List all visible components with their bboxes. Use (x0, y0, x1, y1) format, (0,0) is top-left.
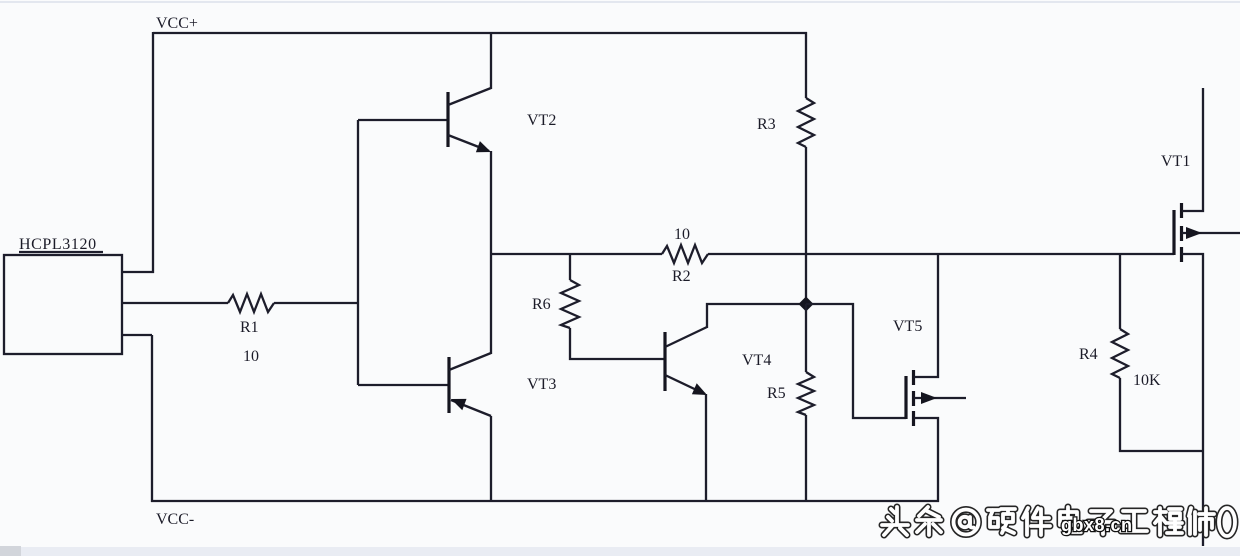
mosfet VT1 channel segment (body) (1180, 226, 1183, 241)
transistor VT2 emitter diagonal (448, 135, 489, 151)
wire: VT3 emitter down to VCC- rail (490, 416, 492, 502)
wire: HCPL3120 top-right pin stub (122, 271, 154, 273)
svg-text:VT2: VT2 (527, 112, 556, 129)
svg-text:10: 10 (674, 226, 690, 243)
svg-text:VCC-: VCC- (156, 511, 194, 528)
svg-text:gbx8.cn: gbx8.cn (1061, 515, 1133, 535)
wire: R2 to VT1 gate line (708, 253, 1174, 255)
wire: R3 bottom through gate line to node (805, 147, 807, 304)
svg-text:VT5: VT5 (893, 318, 922, 335)
mosfet VT1 channel segment (drain side) (1180, 203, 1183, 218)
mosfet VT5 gate bar (904, 376, 907, 419)
wire: VT4 collector up and right to node (707, 304, 806, 328)
resistor R2 (662, 245, 708, 263)
svg-text:HCPL3120: HCPL3120 (19, 236, 97, 253)
wire: VCC- bottom rail (151, 500, 939, 502)
wire: R3 branch from VCC+ rail (805, 32, 807, 98)
resistor R4 (1112, 329, 1128, 378)
svg-text:R5: R5 (767, 385, 786, 402)
svg-text:VT3: VT3 (527, 376, 556, 393)
mosfet VT5 body arrow (921, 392, 937, 404)
resistor R6 (561, 280, 579, 328)
wire: VT2 collector to VCC+ rail (490, 32, 492, 89)
svg-text:R1: R1 (240, 319, 259, 336)
transistor Q VT4 base bar (663, 332, 666, 391)
wire: VT2 base wire (358, 119, 448, 121)
svg-text:VT4: VT4 (742, 352, 771, 369)
wire: VT4 emitter down to VCC- rail (705, 394, 707, 502)
wire: VT3 base wire (358, 384, 449, 386)
mosfet VT5 body lead with arrow (914, 397, 966, 399)
transistor Q VT2 base bar (446, 92, 449, 147)
label underline for HCPL3120 (19, 251, 103, 253)
wire: base bus vertical joining VT2 and VT3 bases (357, 120, 359, 385)
svg-text:10K: 10K (1133, 372, 1161, 389)
watermark 头条 @硬件电子工程师0 (hand-drawn outlined glyphs) (882, 507, 1235, 536)
wire: VT1 source lead down to bottom edge (1182, 254, 1203, 546)
mosfet VT5 channel segment (body) (912, 391, 915, 406)
wire: HCPL3120 bottom-right pin stub (122, 334, 152, 336)
transistor VT3 emitter diagonal (451, 400, 491, 416)
resistor R3 (798, 98, 814, 147)
resistor R5 (798, 372, 814, 415)
mosfet VT1 body lead with arrow (1182, 232, 1240, 234)
wire: node to VT5 gate (right, down, right) (806, 304, 906, 418)
transistor VT3 collector diagonal (to output node) (449, 353, 491, 370)
wire: R5 bottom to VCC- rail (805, 415, 807, 502)
wire: VT5 drain lead (914, 253, 938, 377)
svg-text:R2: R2 (672, 268, 691, 285)
transistor VT4 collector diagonal (665, 327, 707, 347)
wire: VCC+ top rail (153, 32, 807, 34)
resistor R1 (228, 294, 274, 312)
svg-text:VT1: VT1 (1161, 153, 1190, 170)
wire: left vertical down to VCC- rail (151, 335, 153, 502)
mosfet VT1 channel segment (source side) (1180, 247, 1183, 262)
wire: R1 to base node vertical (274, 302, 358, 304)
wire: HCPL3120 output pin to R1 (122, 302, 228, 304)
wire: R4 bottom to VT1 source line (1120, 378, 1203, 451)
wire: node down to R5 (805, 304, 807, 372)
top edge line (decorative) (0, 1, 1240, 3)
svg-text:VCC+: VCC+ (156, 15, 198, 32)
svg-text:R6: R6 (532, 296, 551, 313)
wire: R6 top connection (569, 253, 571, 280)
transistor VT3 emitter arrow (points to base bar) (451, 399, 467, 410)
wire: R6 bottom to VT4 base (570, 328, 665, 359)
svg-text:R4: R4 (1079, 346, 1098, 363)
wire: R4 top connection at gate line (1119, 253, 1121, 329)
wire: VT1 drain lead up (1182, 88, 1203, 211)
wire: left vertical from VCC+ rail down to HCPL3120 pin (152, 32, 154, 273)
transistor VT4 emitter diagonal (665, 375, 705, 394)
mosfet VT5 channel segment (drain side) (912, 370, 915, 385)
wire: VT2 emitter / VT3 collector vertical through output node (490, 151, 492, 354)
wire: gate drive line from push-pull output to R2 (490, 253, 662, 255)
svg-text:R3: R3 (757, 116, 776, 133)
svg-text:10: 10 (243, 348, 259, 365)
mosfet VT1 gate bar (1172, 210, 1175, 255)
mosfet VT5 channel segment (source side) (912, 411, 915, 426)
transistor VT4 emitter arrow (692, 383, 707, 395)
transistor VT2 collector diagonal (448, 88, 491, 105)
bottom strip (0, 547, 1240, 556)
mosfet VT1 body arrow (1186, 227, 1202, 239)
IC U1 HCPL3120 body (4, 255, 122, 354)
transistor Q VT3 base bar (447, 357, 450, 413)
wire: VT5 source lead down to VCC- rail (914, 418, 938, 502)
junction node (solder dot) (799, 297, 814, 312)
transistor VT2 emitter arrow (476, 141, 491, 152)
